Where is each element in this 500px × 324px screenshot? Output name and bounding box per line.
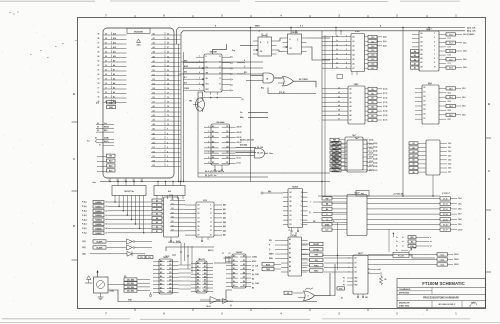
- svg-text:a1: a1: [402, 237, 404, 239]
- svg-text:1a: 1a: [336, 67, 338, 69]
- svg-text:E: E: [215, 26, 216, 28]
- svg-text:C9-1: C9-1: [440, 255, 444, 257]
- svg-text:CN-D3: CN-D3: [454, 264, 459, 266]
- svg-text:1a: 1a: [396, 237, 398, 239]
- svg-text:NMI: NMI: [315, 255, 319, 257]
- svg-text:(1)a1: (1)a1: [383, 41, 387, 43]
- svg-text:1a: 1a: [396, 241, 398, 243]
- svg-text:1a: 1a: [336, 35, 338, 37]
- svg-text:D2: D2: [153, 151, 155, 153]
- svg-text:A2: A2: [113, 91, 115, 94]
- svg-text:C2: C2: [229, 253, 231, 255]
- svg-text:D5: D5: [153, 93, 155, 95]
- svg-text:Dwg: Dwg: [232, 50, 235, 52]
- svg-text:(BLK1): (BLK1): [198, 259, 205, 261]
- svg-text:a2: a2: [338, 96, 340, 98]
- svg-text:P,C-100: P,C-100: [398, 255, 404, 257]
- svg-text:CLEARANCE: CLEARANCE: [399, 288, 411, 291]
- svg-text:22: 22: [105, 65, 107, 67]
- svg-text:A14: A14: [113, 37, 116, 40]
- svg-text:(1)a: (1)a: [230, 62, 233, 64]
- svg-text:D3: D3: [424, 100, 426, 102]
- IC U21 74LS00 quad gate: [283, 186, 308, 232]
- wire U10 output labels: [252, 256, 259, 290]
- svg-text:A0: A0: [153, 105, 155, 108]
- svg-text:16: 16: [167, 97, 169, 99]
- IC U7 6116 RAM: [152, 195, 185, 242]
- svg-text:74LS138: 74LS138: [209, 51, 216, 54]
- svg-text:P-3(L): P-3(L): [82, 215, 87, 217]
- svg-text:(C8-1): (C8-1): [373, 147, 378, 149]
- svg-text:CN-8: CN-8: [463, 67, 467, 69]
- svg-text:D4: D4: [226, 146, 228, 149]
- svg-text:D2: D2: [424, 96, 426, 98]
- wire diode row: [82, 251, 153, 259]
- svg-text:A5: A5: [153, 55, 155, 58]
- svg-text:BLANK: BLANK: [96, 247, 103, 250]
- svg-text:CN-0: CN-0: [463, 34, 467, 36]
- node off-page labels top right: [467, 26, 476, 36]
- svg-text:20: 20: [167, 79, 169, 81]
- svg-text:D2: D2: [204, 269, 206, 271]
- svg-text:10: 10: [210, 209, 212, 211]
- svg-text:B6: B6: [252, 287, 254, 289]
- svg-text:D4: D4: [243, 272, 245, 275]
- wire CLK2 top link: [166, 241, 214, 255]
- svg-text:B0: B0: [371, 89, 373, 91]
- svg-text:CT_CLK: CT_CLK: [252, 265, 259, 267]
- svg-text:7: 7: [167, 138, 168, 140]
- svg-text:OE: OE: [206, 78, 208, 80]
- svg-text:1a: 1a: [336, 62, 338, 64]
- svg-text:D5: D5: [226, 152, 228, 154]
- svg-text:C9-3: C9-3: [448, 155, 451, 157]
- wire U14 output labels: [446, 33, 467, 70]
- svg-text:74LS244: 74LS244: [216, 121, 225, 124]
- svg-text:J1(1): J1(1): [82, 241, 86, 243]
- wire horizontal bus y196: [318, 191, 451, 197]
- svg-text:(B)0: (B)0: [223, 205, 226, 207]
- svg-text:D3: D3: [198, 217, 200, 219]
- svg-text:(C8-5): (C8-5): [373, 162, 378, 164]
- svg-text:D1: D1: [153, 74, 155, 76]
- wire address bus matrix rows: [82, 200, 152, 234]
- svg-text:D5: D5: [243, 277, 245, 279]
- svg-text:a1: a1: [402, 246, 404, 248]
- wire oscillator outputs: [108, 276, 150, 293]
- IC U9 74LS161 counter 2: [191, 259, 213, 293]
- svg-text:D5: D5: [153, 165, 155, 167]
- svg-text:D1: D1: [290, 220, 292, 222]
- wire bus stubs to top right ICs: [335, 27, 429, 35]
- svg-text:P-5(L): P-5(L): [82, 224, 87, 226]
- gate G2 OR 74LS32: [275, 77, 294, 87]
- wire long vertical net at 250: [250, 27, 251, 182]
- svg-text:D3: D3: [226, 141, 228, 143]
- svg-text:(B)_()=,PD_10v: (B)_()=,PD_10v: [205, 175, 216, 177]
- svg-text:A3: A3: [153, 46, 155, 49]
- IC U1 MC6809E CPU: [98, 28, 181, 178]
- svg-text:Vss: Vss: [87, 141, 90, 143]
- svg-text:(B)2: (B)2: [223, 213, 226, 215]
- svg-text:D7: D7: [204, 287, 206, 289]
- svg-text:A1: A1: [160, 263, 162, 266]
- svg-text:D2: D2: [290, 224, 292, 226]
- svg-text:J2(2): J2(2): [82, 254, 86, 256]
- wire gate input RW: [179, 72, 264, 74]
- svg-text:(B)6: (B)6: [223, 230, 226, 232]
- svg-text:C7-15: C7-15: [443, 219, 448, 221]
- svg-text:C6-3: C6-3: [371, 50, 375, 52]
- wire blanking rows with buffers: [82, 239, 152, 250]
- svg-text:Own: Own: [269, 153, 273, 155]
- svg-text:D6: D6: [198, 230, 200, 232]
- svg-text:D3: D3: [204, 273, 206, 275]
- svg-text:3: 3: [167, 156, 168, 158]
- svg-text:10: 10: [167, 124, 169, 126]
- svg-text:(1)a: (1)a: [230, 57, 233, 59]
- IC U14 74LS373 top right: [411, 28, 447, 71]
- svg-text:CN-D2: CN-D2: [454, 259, 459, 261]
- svg-text:CN-6: CN-6: [463, 59, 467, 61]
- svg-text:D3: D3: [243, 268, 245, 270]
- wire annotated net 1: [198, 170, 330, 173]
- IC U3 74LS74 flip-flop: [253, 31, 277, 57]
- svg-text:C7-5: C7-5: [448, 55, 451, 57]
- svg-text:A2: A2: [212, 135, 214, 138]
- svg-text:1a: 1a: [336, 40, 338, 42]
- svg-text:20: 20: [98, 74, 100, 76]
- svg-text:P-6(L): P-6(L): [82, 228, 87, 230]
- svg-text:11: 11: [210, 213, 212, 215]
- svg-text:D5: D5: [424, 109, 426, 111]
- svg-text:RAMA3: RAMA3: [95, 214, 101, 217]
- svg-text:C9-3: C9-3: [440, 265, 444, 267]
- svg-text:26: 26: [105, 47, 107, 49]
- svg-text:19: 19: [105, 79, 107, 81]
- wire address bus matrix columns: [114, 200, 144, 234]
- svg-text:A4: A4: [233, 272, 235, 275]
- svg-text:D7: D7: [243, 285, 245, 287]
- svg-text:A1: A1: [197, 265, 199, 268]
- svg-text:RESET: RESET: [313, 244, 320, 246]
- svg-text:C7-17: C7-17: [443, 230, 448, 232]
- svg-text:21: 21: [98, 70, 100, 72]
- resistor R2 zigzag: [379, 269, 387, 285]
- svg-text:C9-7: C9-7: [448, 172, 451, 174]
- IC U10 74LS93 divider: [226, 251, 251, 288]
- capacitor C1 C2: [214, 253, 232, 263]
- wire ground bus bottom: [108, 290, 317, 302]
- svg-text:28: 28: [98, 38, 100, 40]
- svg-text:1: 1: [167, 165, 168, 167]
- svg-text:(1)a: (1)a: [230, 73, 233, 75]
- svg-text:D: D: [488, 237, 490, 241]
- svg-text:D0: D0: [153, 142, 155, 144]
- svg-text:A5: A5: [113, 78, 115, 81]
- svg-text:+5: +5: [258, 31, 260, 33]
- svg-text:A5: A5: [197, 279, 199, 282]
- wire U15 output labels: [365, 87, 388, 122]
- svg-text:D3: D3: [169, 272, 171, 274]
- svg-text:A11: A11: [113, 51, 116, 54]
- svg-text:D2: D2: [243, 264, 245, 266]
- wire U11 output boxed labels: [302, 242, 324, 272]
- svg-text:13: 13: [210, 222, 212, 224]
- svg-text:1a: 1a: [336, 53, 338, 55]
- svg-text:(C7-3): (C7-3): [383, 102, 388, 104]
- IC U17 74LS393: [332, 137, 378, 172]
- svg-text:RAMA5: RAMA5: [95, 223, 101, 226]
- svg-text:D7: D7: [198, 235, 200, 237]
- svg-text:27: 27: [105, 43, 107, 45]
- wire CPU BA BS pins: [97, 154, 115, 172]
- svg-text:A6: A6: [160, 282, 162, 285]
- wire net w y212: [309, 212, 347, 214]
- svg-text:27: 27: [98, 43, 100, 45]
- svg-text:C7-16: C7-16: [443, 225, 448, 227]
- svg-text:A4: A4: [153, 123, 155, 126]
- svg-text:CN-9: CN-9: [458, 224, 462, 226]
- svg-text:MC6809E: MC6809E: [134, 31, 144, 33]
- svg-text:D7: D7: [226, 162, 228, 164]
- svg-text:C6-5: C6-5: [371, 59, 375, 61]
- svg-text:D4: D4: [204, 275, 206, 278]
- capacitor RC network rows: [389, 229, 432, 252]
- svg-text:1a: 1a: [336, 49, 338, 51]
- svg-text:a3: a3: [338, 101, 340, 103]
- svg-text:74LS00: 74LS00: [292, 186, 298, 189]
- svg-text:29: 29: [98, 34, 100, 36]
- wire XX_A feedback: [261, 88, 316, 94]
- svg-text:D3: D3: [153, 83, 155, 85]
- wire G2 output RE_TIMER: [294, 79, 317, 87]
- svg-text:6116: 6116: [169, 195, 173, 197]
- svg-text:B-1: B-1: [184, 77, 187, 79]
- svg-text:12: 12: [167, 115, 169, 117]
- svg-text:A4: A4: [212, 146, 214, 149]
- svg-text:74LS***: 74LS***: [426, 28, 433, 31]
- svg-text:CN-6: CN-6: [458, 209, 462, 211]
- svg-text:E: E: [244, 60, 245, 62]
- svg-text:D5: D5: [204, 280, 206, 282]
- svg-text:D6: D6: [153, 97, 155, 99]
- svg-text:(B)7: (B)7: [223, 235, 226, 237]
- svg-text:A7: A7: [153, 64, 155, 67]
- gate G6 OR reset: [284, 264, 335, 301]
- IC U8 74LS161 counter: [153, 256, 179, 294]
- svg-text:CN-2: CN-2: [463, 42, 467, 44]
- svg-text:B: B: [73, 92, 75, 96]
- svg-text:D7: D7: [153, 102, 155, 104]
- svg-text:CN-6: CN-6: [462, 114, 466, 116]
- svg-text:PG1: PG1: [339, 288, 342, 290]
- wire PG-100 line: [322, 252, 435, 258]
- svg-text:10: 10: [219, 83, 221, 85]
- svg-text:C: C: [488, 169, 490, 173]
- svg-text:B5: B5: [371, 111, 373, 113]
- svg-text:A3: A3: [212, 140, 214, 143]
- svg-text:C6-0: C6-0: [371, 37, 375, 39]
- svg-text:a6: a6: [338, 114, 340, 116]
- svg-text:ab: ab: [430, 241, 432, 243]
- wire arrow TNR: [396, 248, 417, 252]
- svg-text:D1: D1: [204, 266, 206, 268]
- svg-text:D3: D3: [153, 156, 155, 158]
- svg-text:74LS373 8c: 74LS373 8c: [124, 190, 134, 193]
- svg-text:+Gw: +Gw: [92, 182, 96, 184]
- svg-text:6116: 6116: [203, 200, 207, 202]
- svg-text:A1: A1: [153, 37, 155, 40]
- svg-text:74LS9*: 74LS9*: [236, 251, 243, 254]
- wire U2 output row labels: [230, 57, 245, 92]
- svg-text:(1)a: (1)a: [230, 90, 233, 92]
- svg-text:C7-8: C7-8: [449, 68, 453, 70]
- svg-text:CN-5: CN-5: [458, 203, 462, 205]
- wire clock bus E: [177, 28, 466, 45]
- svg-text:P1: P1: [343, 281, 345, 283]
- svg-text:A7: A7: [160, 286, 162, 289]
- svg-text:a1: a1: [402, 241, 404, 243]
- svg-text:P-2(L): P-2(L): [82, 211, 87, 213]
- svg-text:(C8-6): (C8-6): [373, 166, 378, 168]
- svg-text:D0: D0: [172, 199, 174, 201]
- svg-text:(C7-5): (C7-5): [383, 111, 388, 113]
- svg-text:NMp: NMp: [240, 117, 243, 119]
- svg-text:C6-2: C6-2: [371, 46, 375, 48]
- svg-text:A4: A4: [197, 275, 199, 278]
- svg-text:D6: D6: [169, 283, 171, 285]
- svg-text:A10: A10: [113, 55, 116, 58]
- svg-text:D6: D6: [424, 114, 426, 116]
- svg-text:+5: +5: [288, 230, 290, 232]
- svg-text:D7: D7: [169, 287, 171, 289]
- svg-text:(C8-0): (C8-0): [369, 139, 374, 141]
- svg-text:(BLK1): (BLK1): [208, 250, 214, 252]
- gate G3 AND: [204, 149, 273, 159]
- svg-text:10: 10: [434, 66, 436, 68]
- svg-text:C: C: [73, 157, 75, 161]
- wire U2 input labels: [183, 61, 204, 90]
- svg-text:(L)_CLK1: (L)_CLK1: [252, 274, 259, 276]
- svg-text:A4: A4: [160, 275, 162, 278]
- wire annotated net 2: [198, 175, 268, 177]
- svg-text:RAMA1: RAMA1: [95, 205, 101, 208]
- svg-text:D5: D5: [169, 280, 171, 282]
- node test point circle: [149, 292, 151, 297]
- svg-text:(1)a0: (1)a0: [383, 36, 387, 38]
- wire CPU bottom exit: [87, 141, 330, 185]
- svg-text:P-7(L): P-7(L): [82, 233, 87, 235]
- svg-text:22: 22: [167, 70, 169, 72]
- svg-text:(B) Q_CLK: (B) Q_CLK: [467, 31, 476, 33]
- svg-text:2a: 2a: [396, 250, 398, 252]
- svg-text:A5: A5: [160, 279, 162, 282]
- svg-text:(C) BUSY: (C) BUSY: [467, 34, 475, 36]
- svg-text:B: B: [488, 102, 490, 106]
- svg-text:74(C)**: 74(C)**: [358, 252, 364, 255]
- svg-text:BC-0000-00 ISS C: BC-0000-00 ISS C: [439, 304, 456, 306]
- svg-text:P-1(L): P-1(L): [82, 206, 87, 208]
- svg-text:BLANK: BLANK: [96, 241, 103, 244]
- svg-text:D6: D6: [243, 281, 245, 283]
- svg-text:74(B)*: 74(B)*: [354, 83, 359, 86]
- svg-text:B6: B6: [371, 116, 373, 118]
- wire vertical bus x322: [321, 31, 322, 196]
- wire vertical bus x337: [333, 221, 338, 270]
- svg-text:A0: A0: [160, 259, 162, 262]
- svg-text:A1: A1: [113, 96, 115, 99]
- node bus name labels top: [215, 26, 382, 28]
- svg-text:19: 19: [167, 83, 169, 85]
- svg-text:D1: D1: [172, 204, 174, 206]
- svg-text:11: 11: [167, 120, 169, 122]
- svg-text:D6: D6: [172, 225, 174, 227]
- wire U2 top corner wire: [213, 44, 236, 54]
- svg-text:A7: A7: [197, 286, 199, 289]
- svg-text:C6-1: C6-1: [371, 41, 375, 43]
- svg-text:A12: A12: [113, 46, 116, 49]
- svg-text:A7: A7: [212, 161, 214, 164]
- svg-text:13: 13: [167, 111, 169, 113]
- svg-text:D2: D2: [226, 136, 228, 138]
- svg-text:A13: A13: [113, 42, 116, 45]
- svg-text:A4: A4: [153, 51, 155, 54]
- svg-text:22: 22: [98, 65, 100, 67]
- svg-text:A7: A7: [113, 69, 115, 72]
- power symbol +5V arrow: [96, 270, 98, 277]
- svg-text:A7: A7: [233, 284, 235, 287]
- svg-text:A1: A1: [233, 259, 235, 262]
- svg-text:23: 23: [167, 65, 169, 67]
- svg-text:21: 21: [167, 74, 169, 76]
- svg-text:A3: A3: [233, 267, 235, 270]
- svg-text:C6-6: C6-6: [371, 64, 375, 66]
- svg-text:C8-3: C8-3: [448, 101, 451, 103]
- svg-text:15: 15: [98, 97, 100, 99]
- svg-text:CN-D1: CN-D1: [454, 254, 459, 256]
- svg-text:D0: D0: [243, 256, 245, 258]
- ground symbol left: [85, 276, 92, 283]
- svg-text:C6-7: C6-7: [371, 68, 375, 70]
- svg-text:A0: A0: [197, 261, 199, 264]
- svg-text:11: 11: [301, 197, 303, 199]
- IC U11 system control: [281, 230, 308, 277]
- svg-text:1a: 1a: [396, 246, 398, 248]
- svg-text:C7-13: C7-13: [443, 209, 448, 211]
- svg-text:D0: D0: [160, 291, 162, 293]
- svg-text:(1)a: (1)a: [230, 79, 233, 81]
- IC U6 74LS373 latch horizontal: [112, 181, 146, 200]
- svg-text:C7-11: C7-11: [443, 199, 447, 201]
- svg-text:C7-7: C7-7: [448, 63, 451, 65]
- svg-text:C8-0: C8-0: [449, 88, 453, 90]
- IC U4 74LS74 flip-flop: [283, 27, 307, 54]
- svg-text:23: 23: [105, 61, 107, 63]
- svg-text:16: 16: [105, 92, 107, 94]
- svg-text:B2: B2: [371, 98, 373, 100]
- svg-text:15: 15: [167, 102, 169, 104]
- svg-text:16: 16: [98, 92, 100, 94]
- svg-text:A2: A2: [153, 42, 155, 45]
- svg-text:8: 8: [167, 133, 168, 135]
- svg-text:FIRQ: FIRQ: [314, 265, 319, 267]
- svg-text:74p**: 74p**: [352, 134, 357, 137]
- svg-text:(XX_A): (XX_A): [279, 91, 285, 94]
- svg-text:D0: D0: [197, 290, 199, 292]
- svg-text:A3: A3: [113, 87, 115, 90]
- svg-text:D1: D1: [226, 131, 228, 133]
